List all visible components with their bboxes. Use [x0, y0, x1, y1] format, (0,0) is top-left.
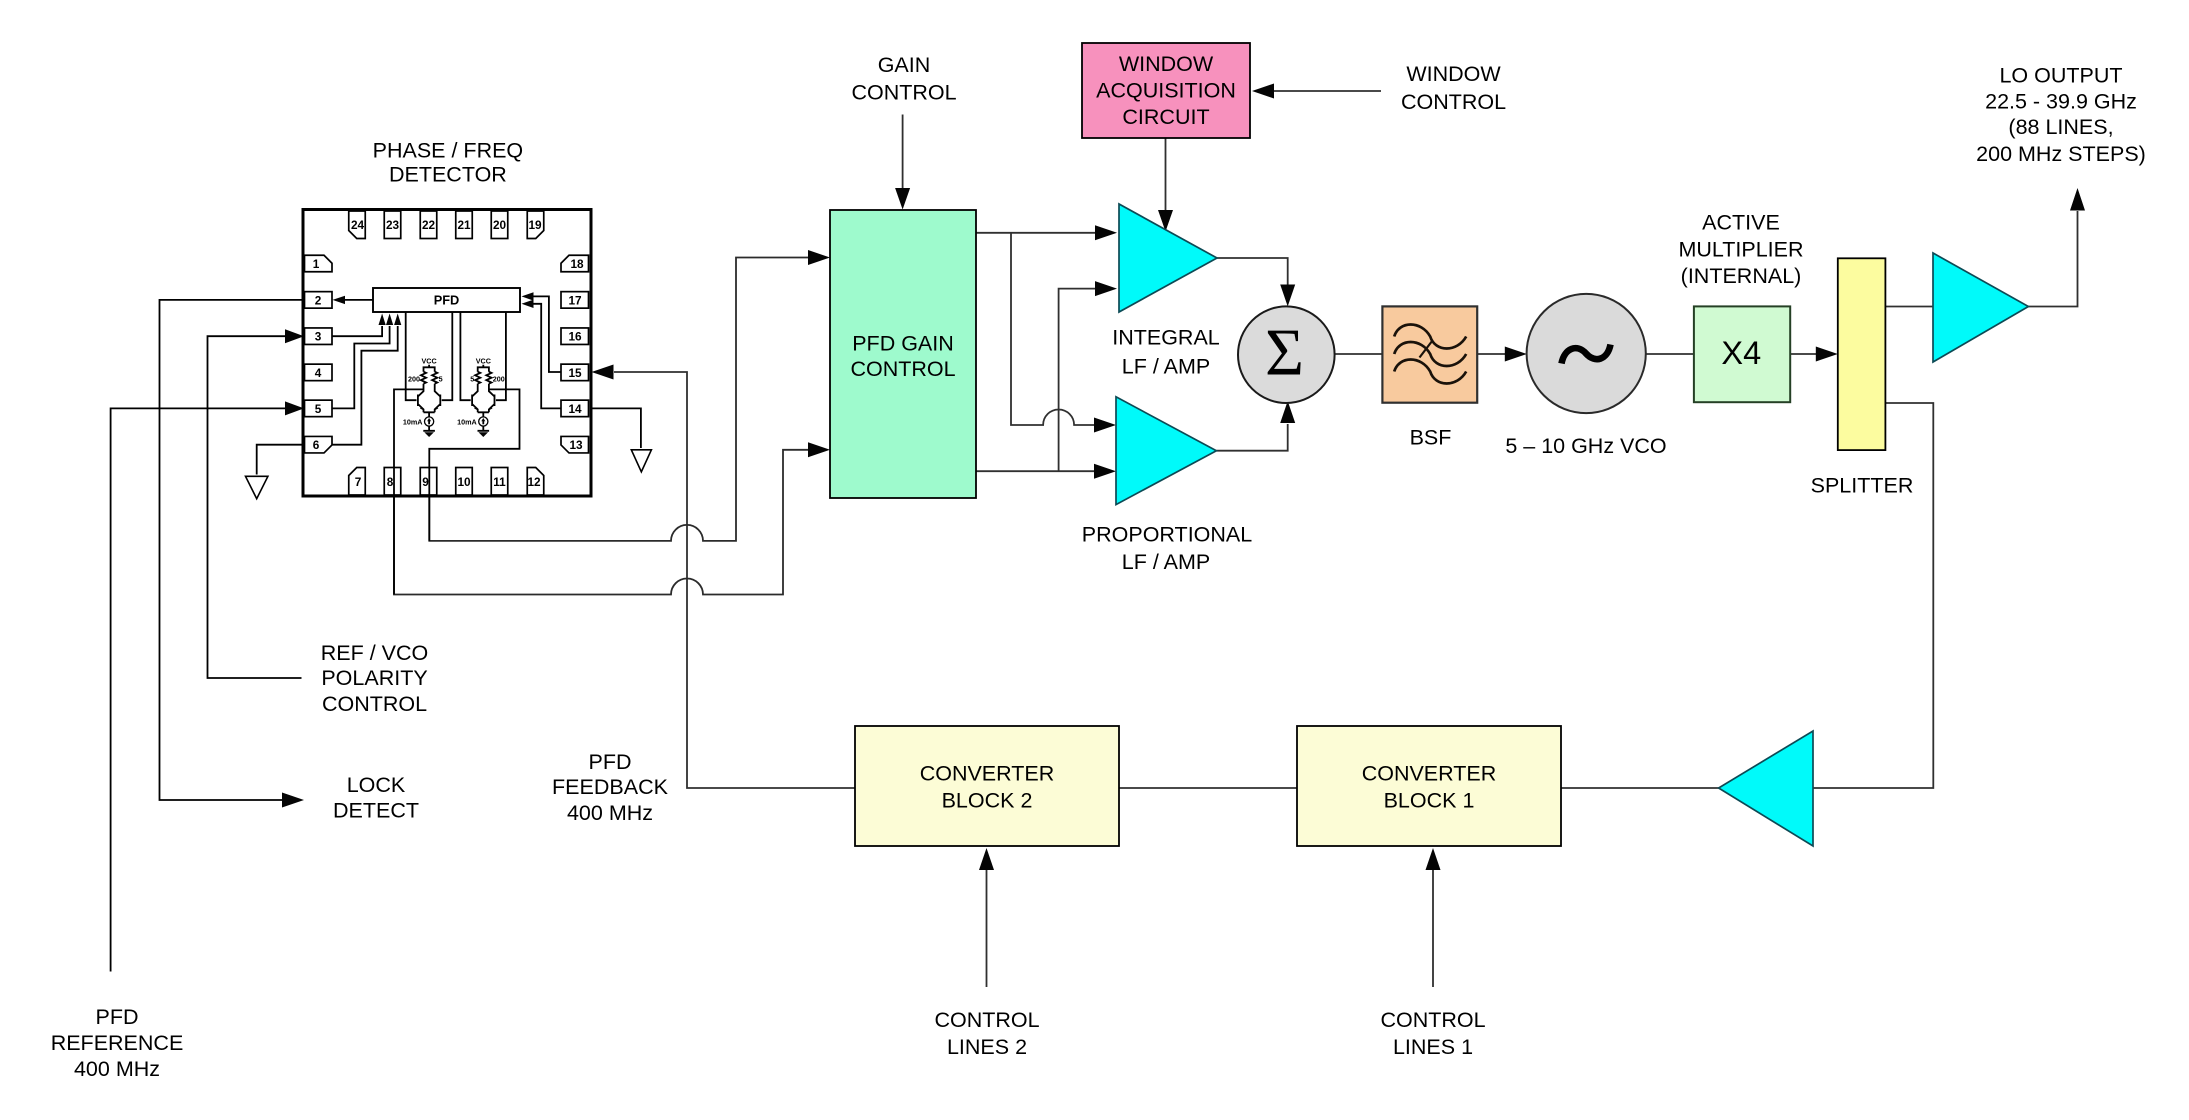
PFD chip package outline [303, 210, 591, 497]
wire summer output to BSF [1335, 353, 1383, 355]
block CONVERTER BLOCK 1 [1297, 726, 1561, 846]
svg-text:17: 17 [568, 293, 582, 307]
op-amp INTEGRAL LF/AMP [1119, 204, 1217, 312]
pin 24 [349, 211, 366, 239]
svg-text:23: 23 [386, 218, 400, 232]
wire feedback amp to CONVERTER BLOCK 1 [1561, 787, 1719, 789]
svg-text:13: 13 [569, 438, 583, 452]
pin 22 [420, 211, 437, 239]
transistor pair right cell [472, 384, 494, 417]
op-amp feedback amplifier [1719, 731, 1813, 846]
wire SPLITTER lower output down to feedback amp [1813, 403, 1933, 788]
op-amp LO output amplifier [1933, 253, 2028, 362]
svg-text:(INTERNAL): (INTERNAL) [1681, 264, 1802, 288]
wire WINDOW ACQUISITION CIRCUIT down into INTEGRAL amp [1158, 138, 1173, 232]
svg-text:10mA: 10mA [457, 418, 477, 427]
pin 5 [305, 400, 333, 417]
wire REF/VCO POLARITY CONTROL to pin 3 arrow [208, 329, 305, 678]
svg-text:CONTROL: CONTROL [1380, 1008, 1485, 1032]
wire PFD output arrow to pin 2 [333, 296, 374, 304]
oscillator 5-10 GHz VCO [1527, 294, 1646, 413]
svg-text:PFD: PFD [96, 1005, 139, 1029]
svg-text:LOCK: LOCK [347, 773, 406, 797]
label 5 - 10 GHz VCO [1505, 434, 1666, 458]
wire pin 14 to open ground triangle [591, 408, 651, 471]
wire WINDOW CONTROL arrow into WINDOW ACQUISITION CIRCUIT [1252, 84, 1381, 99]
wire pin 14 arrow into PFD right lower [522, 300, 562, 409]
wire pin 8 stub below chip [393, 468, 395, 595]
svg-text:CONVERTER: CONVERTER [920, 761, 1055, 785]
svg-text:CONTROL: CONTROL [851, 81, 956, 105]
wire pin 3 up-arrow into PFD [333, 314, 386, 337]
svg-text:10mA: 10mA [403, 418, 423, 427]
pin 4 [305, 364, 333, 381]
resistor 5 right cell [470, 372, 480, 384]
wire PFD drop to left cell left base [406, 312, 417, 400]
wire pin 2 to LOCK DETECT arrow [160, 300, 305, 808]
svg-text:8: 8 [387, 475, 394, 489]
svg-text:FEEDBACK: FEEDBACK [552, 775, 669, 799]
resistor 200 right cell [486, 372, 505, 384]
block CONVERTER BLOCK 2 [855, 726, 1119, 846]
wire PFD REFERENCE to pin 5 arrow [111, 401, 304, 971]
wire SPLITTER upper output to LO amp [1885, 306, 1933, 308]
wire CONTROL LINES 1 arrow into CONVERTER BLOCK 1 [1426, 848, 1441, 987]
block SPLITTER [1838, 258, 1886, 450]
label ACTIVE MULTIPLIER (INTERNAL) [1678, 210, 1803, 288]
wire branch to PROPORTIONAL amp upper input with hop [1011, 233, 1116, 433]
svg-text:ACTIVE: ACTIVE [1702, 210, 1780, 234]
svg-text:200 MHz STEPS): 200 MHz STEPS) [1976, 142, 2146, 166]
VCC label left cell [422, 357, 437, 372]
wire pin 6 up-arrow into PFD [333, 314, 402, 445]
svg-text:5: 5 [315, 402, 322, 416]
svg-text:LF / AMP: LF / AMP [1122, 550, 1210, 574]
svg-text:INTEGRAL: INTEGRAL [1112, 325, 1220, 349]
svg-text:5: 5 [439, 375, 443, 384]
svg-text:MULTIPLIER: MULTIPLIER [1678, 238, 1803, 262]
svg-text:GAIN: GAIN [878, 53, 931, 77]
label WINDOW CONTROL [1401, 62, 1506, 114]
svg-text:PFD: PFD [589, 750, 632, 774]
svg-text:(88 LINES,: (88 LINES, [2008, 115, 2113, 139]
current source 10mA left cell [403, 417, 434, 427]
svg-text:14: 14 [568, 402, 582, 416]
pin 12 [527, 468, 544, 496]
svg-text:BSF: BSF [1410, 426, 1452, 450]
svg-text:16: 16 [568, 330, 582, 344]
svg-text:200: 200 [493, 375, 505, 384]
label SPLITTER [1811, 474, 1914, 498]
svg-text:10: 10 [457, 475, 471, 489]
block WINDOW ACQUISITION CIRCUIT [1082, 43, 1250, 138]
svg-text:REF / VCO: REF / VCO [321, 641, 429, 665]
pin 2 [305, 292, 333, 309]
label LOCK DETECT [333, 773, 419, 823]
wire GAIN CONTROL arrow into PFD GAIN CONTROL [895, 115, 910, 210]
label INTEGRAL LF / AMP [1112, 325, 1220, 378]
svg-text:21: 21 [457, 218, 471, 232]
svg-text:X4: X4 [1721, 335, 1761, 371]
label BSF [1410, 426, 1452, 450]
svg-text:19: 19 [528, 218, 542, 232]
pin 17 [561, 292, 589, 309]
current source 10mA right cell [457, 417, 488, 427]
svg-text:5: 5 [470, 375, 474, 384]
svg-text:DETECTOR: DETECTOR [389, 162, 507, 186]
svg-text:VCC: VCC [422, 357, 437, 366]
label CONTROL LINES 2 [934, 1008, 1039, 1059]
svg-text:200: 200 [408, 375, 420, 384]
pin 16 [561, 328, 589, 345]
wire pin 9 to PFD GAIN CONTROL upper input with hop [429, 250, 830, 541]
svg-text:POLARITY: POLARITY [321, 666, 427, 690]
wire VCO to X4 [1646, 353, 1694, 355]
svg-text:LF / AMP: LF / AMP [1122, 354, 1210, 378]
wire PFD drop to right cell right base [496, 312, 506, 400]
svg-text:1: 1 [313, 257, 320, 271]
ground left cell [423, 426, 435, 437]
wire pin 9 stub below chip [428, 468, 430, 541]
svg-text:BLOCK 2: BLOCK 2 [942, 788, 1033, 812]
svg-text:LINES 2: LINES 2 [947, 1035, 1027, 1059]
wire to INTEGRAL amp lower input [1059, 281, 1117, 471]
wire pin 6 to open ground triangle [246, 445, 304, 499]
label REF / VCO POLARITY CONTROL [321, 641, 429, 716]
svg-text:6: 6 [313, 438, 320, 452]
PFD block inside chip [373, 288, 520, 312]
wire INTEGRAL amp output to summer top [1217, 258, 1295, 306]
svg-text:LINES 1: LINES 1 [1393, 1035, 1473, 1059]
resistor 200 left cell [408, 372, 426, 384]
label PFD REFERENCE 400 MHz [51, 1005, 184, 1081]
svg-text:12: 12 [527, 475, 541, 489]
VCC label right cell [476, 357, 491, 372]
pin 20 [491, 211, 508, 239]
pin 10 [456, 468, 473, 496]
block PFD GAIN CONTROL [830, 210, 976, 498]
svg-text:WINDOW: WINDOW [1406, 62, 1501, 86]
svg-text:400 MHz: 400 MHz [74, 1057, 160, 1081]
svg-text:BLOCK 1: BLOCK 1 [1384, 788, 1475, 812]
svg-text:PROPORTIONAL: PROPORTIONAL [1082, 523, 1252, 547]
wire right cell collector tap to pin 9 [429, 389, 519, 467]
svg-text:3: 3 [315, 330, 322, 344]
label PROPORTIONAL LF / AMP [1082, 523, 1252, 574]
label GAIN CONTROL [851, 53, 956, 104]
svg-text:CONTROL: CONTROL [934, 1008, 1039, 1032]
op-amp PROPORTIONAL LF/AMP [1116, 397, 1216, 505]
pin 11 [491, 468, 508, 496]
svg-text:9: 9 [422, 475, 429, 489]
filter BSF [1382, 306, 1477, 402]
svg-text:CIRCUIT: CIRCUIT [1122, 105, 1209, 129]
svg-text:PFD: PFD [434, 293, 460, 308]
wire pin 5 up-arrow into PFD [333, 314, 394, 409]
pin 14 [561, 400, 589, 417]
wire PFD drop to right cell left base [460, 312, 470, 400]
svg-text:WINDOW: WINDOW [1119, 52, 1214, 76]
svg-text:Σ: Σ [1265, 316, 1304, 390]
wire PFD GAIN CONTROL upper output to INTEGRAL amp upper input [976, 225, 1117, 240]
wire CONTROL LINES 2 arrow into CONVERTER BLOCK 2 [979, 848, 994, 987]
svg-text:PFD GAIN: PFD GAIN [852, 332, 954, 356]
ground right cell [478, 426, 490, 437]
wire PFD drop to left cell right base [442, 312, 453, 400]
wire pin 8 to PFD GAIN CONTROL lower input with hop [394, 389, 830, 594]
wire pin 15 arrow into PFD right upper [522, 292, 562, 372]
multiplier X4 [1694, 306, 1790, 402]
svg-text:15: 15 [568, 366, 582, 380]
pin 18 [561, 255, 589, 272]
svg-text:400 MHz: 400 MHz [567, 801, 653, 825]
svg-text:LO OUTPUT: LO OUTPUT [1999, 63, 2122, 87]
summer sigma node [1238, 306, 1335, 403]
svg-text:22: 22 [422, 218, 436, 232]
pin 1 [305, 255, 333, 272]
svg-text:18: 18 [570, 257, 584, 271]
svg-text:PHASE / FREQ: PHASE / FREQ [373, 138, 524, 162]
svg-text:24: 24 [351, 218, 365, 232]
svg-text:2: 2 [315, 293, 322, 307]
pin 9 [420, 468, 437, 496]
wire PFD GAIN CONTROL lower output to PROPORTIONAL amp lower input [976, 464, 1116, 479]
svg-text:CONVERTER: CONVERTER [1362, 761, 1497, 785]
svg-text:5 – 10 GHz VCO: 5 – 10 GHz VCO [1505, 434, 1666, 458]
wire BSF output arrow into VCO [1477, 347, 1527, 362]
pin 8 [384, 468, 401, 496]
label LO OUTPUT [1976, 63, 2146, 165]
wire CONVERTER BLOCK 2 to pin 15 PFD feedback [592, 365, 856, 789]
wire LO amp output up arrow LO OUTPUT [2028, 188, 2085, 307]
pin 19 [527, 211, 544, 239]
svg-text:DETECT: DETECT [333, 799, 419, 823]
pin 23 [384, 211, 401, 239]
pin 15 [561, 364, 589, 381]
svg-text:22.5 - 39.9 GHz: 22.5 - 39.9 GHz [1985, 90, 2137, 114]
pin 7 [349, 468, 366, 496]
pin 13 [561, 436, 589, 453]
label PFD FEEDBACK 400 MHz [552, 750, 669, 825]
wire CONVERTER BLOCK 1 to CONVERTER BLOCK 2 [1119, 787, 1297, 789]
transistor pair left cell [418, 384, 440, 417]
svg-text:SPLITTER: SPLITTER [1811, 474, 1914, 498]
svg-text:4: 4 [315, 366, 322, 380]
wire X4 arrow into SPLITTER [1790, 347, 1838, 362]
pin 3 [305, 328, 333, 345]
svg-text:20: 20 [493, 218, 507, 232]
svg-text:VCC: VCC [476, 357, 491, 366]
svg-text:11: 11 [493, 475, 506, 489]
wire left cell collector tap to pin 8 [394, 389, 424, 467]
svg-text:REFERENCE: REFERENCE [51, 1031, 184, 1055]
svg-text:CONTROL: CONTROL [1401, 90, 1506, 114]
svg-text:CONTROL: CONTROL [850, 357, 955, 381]
pin 21 [456, 211, 473, 239]
label CONTROL LINES 1 [1380, 1008, 1485, 1059]
svg-text:7: 7 [355, 475, 362, 489]
svg-text:CONTROL: CONTROL [322, 692, 427, 716]
label PHASE / FREQ DETECTOR [373, 138, 524, 186]
pin 6 [305, 436, 333, 453]
svg-text:ACQUISITION: ACQUISITION [1096, 79, 1236, 103]
resistor 5 left cell [432, 372, 443, 384]
wire PROPORTIONAL amp output to summer bottom [1216, 401, 1295, 451]
